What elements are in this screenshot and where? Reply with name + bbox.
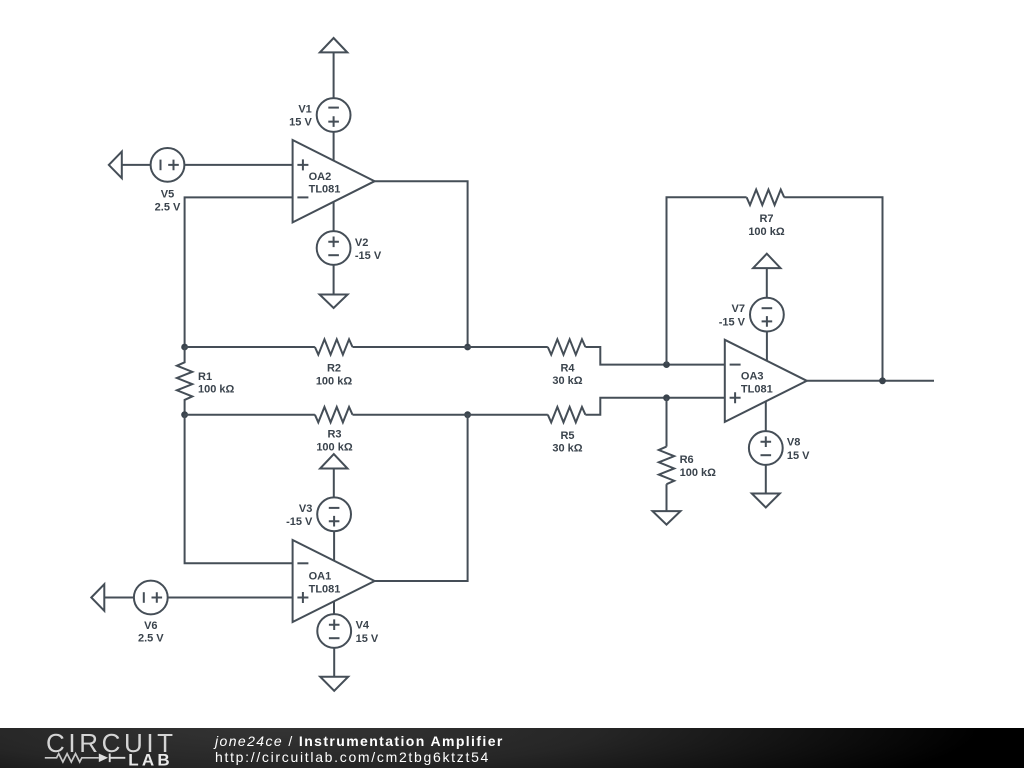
- svg-text:R7: R7: [759, 213, 773, 225]
- wire: [333, 202, 335, 232]
- wire (R5 to OA3 non-inverting input): [585, 398, 724, 415]
- resistor R3 100 kΩ: [315, 407, 353, 453]
- power flag (VCC above V1): [320, 38, 347, 52]
- svg-text:100 kΩ: 100 kΩ: [316, 441, 353, 453]
- svg-text:15 V: 15 V: [356, 633, 379, 645]
- ground (below V8): [752, 494, 780, 508]
- svg-text:R4: R4: [560, 362, 575, 374]
- svg-text:30 kΩ: 30 kΩ: [552, 375, 582, 387]
- wire: [333, 531, 335, 561]
- node (R1 bottom junction): [181, 411, 188, 418]
- svg-text:V4: V4: [356, 620, 370, 632]
- wire: [765, 401, 767, 431]
- wire: [333, 131, 335, 160]
- wire: [333, 601, 335, 614]
- wire: [122, 164, 151, 166]
- node (OA2 output to rail): [464, 344, 471, 351]
- svg-text:V2: V2: [355, 237, 368, 249]
- svg-text:V8: V8: [787, 437, 800, 449]
- power flag (above V7): [753, 254, 780, 268]
- svg-text:15 V: 15 V: [787, 450, 810, 462]
- voltage source V1 15 V: [289, 98, 350, 132]
- wire: [766, 331, 768, 361]
- wire (top rail right of R2): [353, 346, 548, 348]
- wire: [104, 597, 134, 599]
- wire: [184, 164, 293, 166]
- wire (R6 to ground): [666, 484, 668, 511]
- svg-text:30 kΩ: 30 kΩ: [552, 443, 582, 455]
- ground (below V4): [320, 677, 348, 691]
- input port flag (V6): [91, 584, 104, 611]
- ground (below R6): [653, 511, 681, 524]
- resistor R1 100 kΩ: [177, 347, 235, 415]
- wire (feedback right leg): [784, 197, 882, 380]
- svg-text:15 V: 15 V: [289, 117, 312, 129]
- svg-text:V7: V7: [732, 303, 745, 315]
- wire (bottom rail left of R3): [185, 414, 315, 416]
- power flag (above V3): [320, 454, 347, 468]
- node (OA3 inverting junction): [663, 361, 670, 368]
- input port flag (V5): [109, 152, 122, 179]
- svg-text:100 kΩ: 100 kΩ: [680, 467, 717, 479]
- svg-text:TL081: TL081: [309, 184, 341, 196]
- svg-text:V6: V6: [144, 620, 157, 632]
- svg-text:-15 V: -15 V: [355, 250, 382, 262]
- voltage source V5 2.5 V: [151, 148, 185, 213]
- svg-text:R1: R1: [198, 371, 212, 383]
- voltage source V3 -15 V: [286, 497, 351, 531]
- svg-text:V5: V5: [161, 188, 174, 200]
- voltage source V7 -15 V: [719, 298, 784, 332]
- wire (node to R6): [666, 398, 668, 447]
- wire: [333, 52, 335, 98]
- svg-text:-15 V: -15 V: [286, 516, 313, 528]
- svg-text:TL081: TL081: [309, 583, 341, 595]
- svg-text:R3: R3: [327, 429, 341, 441]
- wire (OA1 output): [375, 415, 468, 581]
- resistor R2 100 kΩ: [315, 339, 353, 387]
- voltage source V8 15 V: [749, 431, 810, 465]
- wire: [765, 464, 767, 493]
- svg-text:OA1: OA1: [309, 571, 332, 583]
- svg-text:V3: V3: [299, 503, 312, 515]
- wire (OA2 output): [375, 181, 468, 347]
- resistor R5 30 kΩ: [548, 407, 586, 455]
- svg-text:100 kΩ: 100 kΩ: [198, 384, 235, 396]
- svg-text:OA3: OA3: [741, 371, 764, 383]
- wire (bottom rail right of R3): [353, 414, 548, 416]
- wire: [333, 264, 335, 294]
- node (OA3 non-inverting junction): [663, 394, 670, 401]
- node (output to feedback): [879, 377, 886, 384]
- op-amp OA1 TL081: [293, 540, 375, 622]
- wire (top rail left of R2): [185, 346, 315, 348]
- wire: [333, 469, 335, 498]
- node (R1 top junction): [181, 344, 188, 351]
- ground (below V2): [320, 295, 348, 309]
- svg-text:R6: R6: [680, 454, 694, 466]
- svg-text:2.5 V: 2.5 V: [138, 632, 164, 644]
- svg-text:R2: R2: [327, 363, 341, 375]
- svg-text:R5: R5: [560, 430, 574, 442]
- svg-text:-15 V: -15 V: [719, 316, 746, 328]
- wire (feedback left leg): [667, 197, 747, 364]
- CIRCUITLAB logo: [45, 728, 177, 768]
- voltage source V6 2.5 V: [134, 581, 168, 645]
- op-amp OA3 TL081: [725, 340, 807, 422]
- wire: [766, 268, 768, 298]
- svg-text:TL081: TL081: [741, 384, 773, 396]
- wire: [167, 597, 293, 599]
- svg-text:OA2: OA2: [309, 171, 332, 183]
- wire (OA3 output): [807, 380, 934, 382]
- svg-text:LAB: LAB: [128, 750, 173, 768]
- node (OA1 output to rail): [464, 411, 471, 418]
- svg-text:2.5 V: 2.5 V: [155, 201, 181, 213]
- resistor R7 100 kΩ: [747, 190, 785, 239]
- svg-text:V1: V1: [298, 103, 311, 115]
- svg-text:100 kΩ: 100 kΩ: [316, 375, 353, 387]
- wire (left rail down to OA1 inverting input): [185, 415, 293, 564]
- op-amp OA2 TL081: [293, 140, 375, 222]
- wire: [333, 647, 335, 676]
- resistor R4 30 kΩ: [548, 339, 586, 387]
- voltage source V4 15 V: [317, 614, 379, 648]
- wire (OA2 inverting input to left rail): [185, 197, 293, 347]
- resistor R6 100 kΩ: [659, 447, 716, 485]
- voltage source V2 -15 V: [317, 231, 382, 265]
- svg-text:100 kΩ: 100 kΩ: [748, 226, 785, 238]
- wire (R4 to OA3 inverting input): [585, 347, 724, 365]
